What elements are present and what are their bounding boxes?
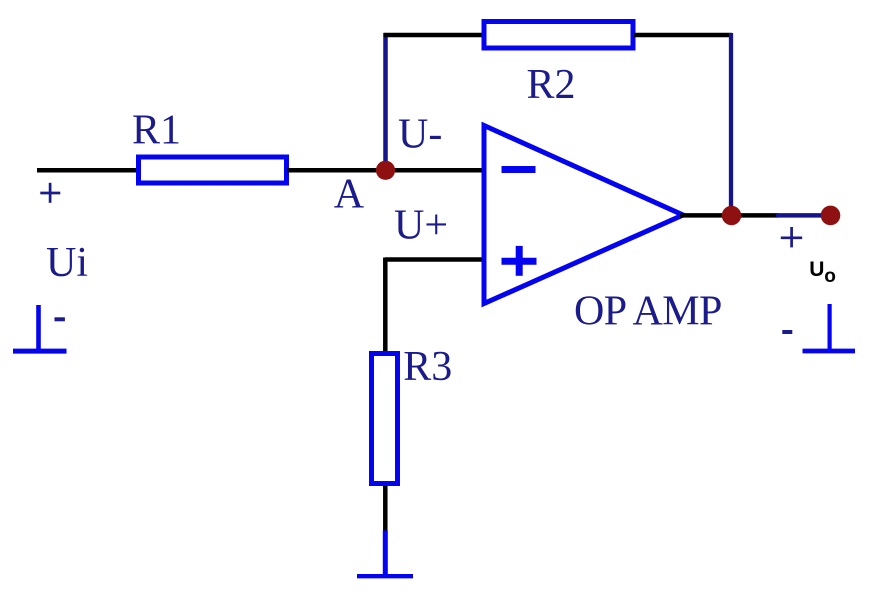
ground right (output) xyxy=(803,304,856,351)
svg-text:o: o xyxy=(824,266,836,287)
op-amp plus sign xyxy=(502,246,537,276)
wire feedback top left xyxy=(384,33,484,38)
wire feedback vertical right (down to output node) xyxy=(729,33,733,215)
wire non-inverting vertical to R3 xyxy=(383,258,388,353)
wire output navy xyxy=(776,213,831,218)
resistor R2 xyxy=(484,22,633,49)
wire output black xyxy=(680,213,778,218)
svg-text:OP AMP: OP AMP xyxy=(574,289,722,335)
resistor R3 xyxy=(372,354,398,484)
svg-text:U: U xyxy=(809,258,824,281)
op-amp minus sign xyxy=(502,166,536,173)
svg-text:Ui: Ui xyxy=(46,240,88,286)
output minus polarity mark xyxy=(782,330,792,334)
op-amp U1 xyxy=(484,126,683,304)
svg-text:R2: R2 xyxy=(527,62,576,108)
wire feedback vertical left (node A up) xyxy=(383,33,388,170)
output node junction dot xyxy=(722,206,741,225)
wire input lead xyxy=(37,168,139,173)
svg-text:U+: U+ xyxy=(394,203,448,249)
wire below R3 xyxy=(383,486,388,532)
input minus polarity mark xyxy=(55,317,65,321)
label uo (output voltage) xyxy=(809,258,836,287)
wire feedback top right xyxy=(634,33,732,38)
node A junction dot xyxy=(376,161,395,180)
svg-text:R1: R1 xyxy=(132,108,181,154)
output plus polarity mark xyxy=(781,227,802,247)
output terminal dot xyxy=(821,206,841,226)
ground bottom (below R3) xyxy=(357,531,413,577)
svg-text:A: A xyxy=(334,171,365,217)
resistor R1 xyxy=(139,157,287,183)
wire non-inverting input horizontal xyxy=(385,257,483,262)
svg-text:U-: U- xyxy=(398,112,442,158)
input plus polarity mark xyxy=(40,183,60,203)
wire R1 to op-amp inverting input xyxy=(287,168,483,173)
svg-text:R3: R3 xyxy=(403,344,452,390)
ground left (input) xyxy=(13,305,67,351)
